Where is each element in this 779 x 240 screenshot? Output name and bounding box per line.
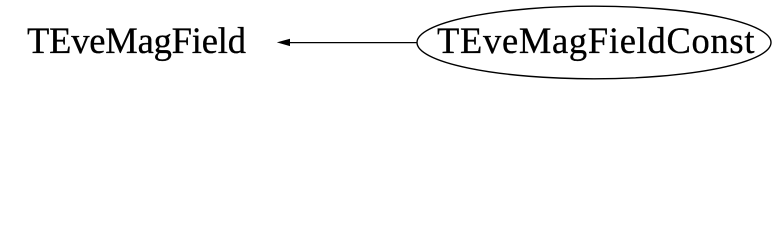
arrowhead pointing to TEveMagField: [277, 39, 290, 46]
svg-text:TEveMagFieldConst: TEveMagFieldConst: [437, 20, 755, 61]
wire (inheritance edge shaft): [289, 42, 417, 44]
svg-text:TEveMagField: TEveMagField: [27, 20, 246, 61]
node TEveMagFieldConst ellipse: [417, 6, 771, 79]
